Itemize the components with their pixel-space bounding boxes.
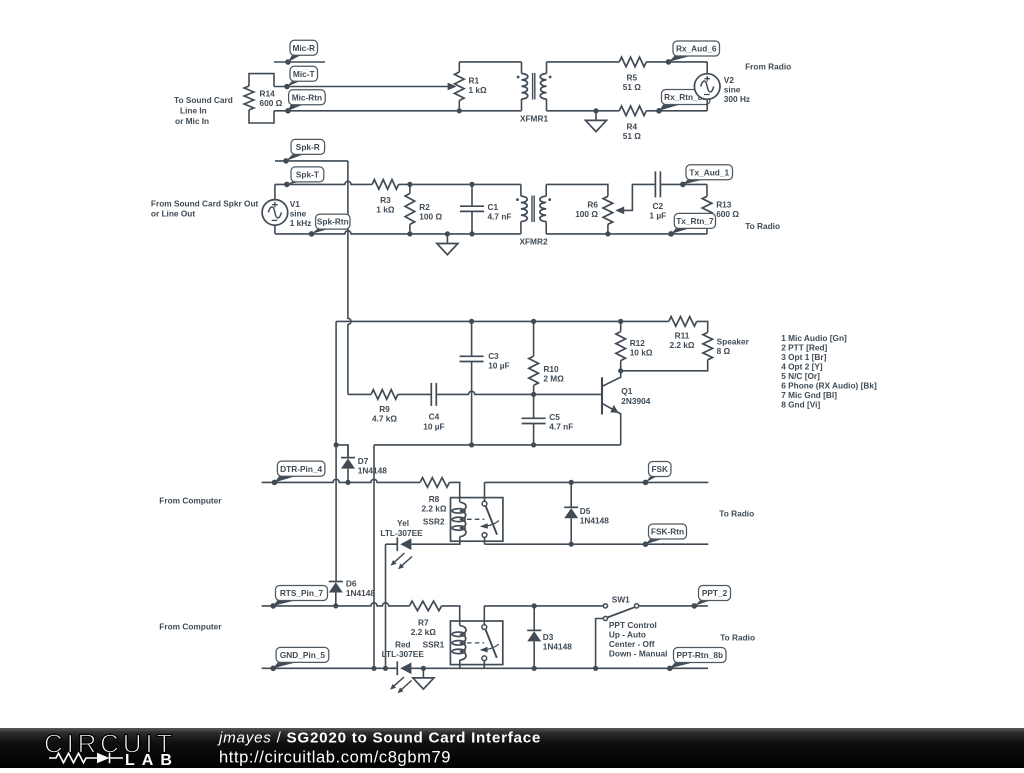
svg-text:From Radio: From Radio (745, 62, 791, 72)
wire FSK-Rtn row (485, 543, 709, 545)
svg-text:To Sound Card: To Sound Card (174, 95, 233, 105)
svg-text:Speaker: Speaker (717, 337, 750, 347)
flag Tx_Aud_1 (683, 179, 707, 185)
svg-text:1 kHz: 1 kHz (290, 218, 312, 228)
svg-text:FSK-Rtn: FSK-Rtn (651, 527, 684, 537)
wire Mic-R stub (274, 61, 325, 63)
flag Tx_Rtn_7 (671, 227, 693, 234)
LED yellow (SSR2) (411, 541, 459, 544)
resistor R5 (619, 57, 646, 67)
potentiometer R6 (603, 196, 613, 224)
svg-text:10 µF: 10 µF (423, 421, 444, 431)
flag GND_Pin_5 (273, 661, 300, 668)
potentiometer R1 (458, 62, 460, 72)
wire mid signal R9 row (348, 393, 371, 395)
svg-text:2.2 kΩ: 2.2 kΩ (421, 504, 446, 514)
flag DTR-Pin_4 (275, 475, 299, 482)
svg-text:Tx_Rtn_7: Tx_Rtn_7 (676, 216, 714, 226)
node R10 top (531, 319, 536, 324)
svg-text:7 Mic Gnd [Bl]: 7 Mic Gnd [Bl] (781, 390, 837, 400)
wire left vertical rail (335, 321, 337, 581)
svg-text:300 Hz: 300 Hz (724, 94, 750, 104)
capacitor C2 (654, 171, 656, 197)
transistor Q1 (601, 377, 603, 414)
svg-text:R9: R9 (379, 404, 390, 414)
wire rail drop to GND row (373, 445, 375, 668)
svg-text:Mic-R: Mic-R (292, 43, 315, 53)
svg-text:8 Gnd [Vi]: 8 Gnd [Vi] (781, 399, 820, 409)
node R12 top (618, 319, 623, 324)
svg-text:R4: R4 (626, 121, 637, 131)
svg-text:R1: R1 (469, 76, 480, 86)
svg-text:2 PTT [Red]: 2 PTT [Red] (781, 342, 827, 352)
node R2 bottom (407, 231, 412, 236)
svg-text:R3: R3 (380, 195, 391, 205)
svg-text:Spk-Rtn: Spk-Rtn (317, 217, 349, 227)
svg-text:jmayes / SG2020 to Sound Card: jmayes / SG2020 to Sound Card Interface (217, 730, 541, 747)
SSR1 switch (483, 606, 485, 625)
svg-text:2.2 kΩ: 2.2 kΩ (411, 627, 436, 637)
node D7 anode (345, 480, 350, 485)
svg-text:R2: R2 (419, 202, 430, 212)
svg-text:10 kΩ: 10 kΩ (630, 348, 653, 358)
node rail-left junction (334, 442, 339, 447)
svg-text:2N3904: 2N3904 (621, 396, 650, 406)
svg-text:or Mic In: or Mic In (175, 116, 209, 126)
svg-text:600 Ω: 600 Ω (716, 209, 739, 219)
switch SW1 (603, 604, 607, 608)
capacitor C5 (533, 394, 535, 418)
node Rx_Aud_6 (666, 59, 671, 64)
wire V2 bottom row (547, 110, 708, 112)
svg-text:From Computer: From Computer (159, 495, 222, 505)
wire Mic-T (274, 86, 449, 88)
svg-text:Rx_Aud_6: Rx_Aud_6 (676, 44, 717, 54)
node R10 mid (531, 392, 536, 397)
flag Mic-Rtn (288, 104, 305, 111)
flag Spk-Rtn (312, 228, 332, 234)
svg-text:R11: R11 (675, 331, 690, 341)
svg-text:From Computer: From Computer (159, 621, 222, 631)
flag Rx_Rtn_8b (659, 104, 683, 111)
svg-text:1 kΩ: 1 kΩ (376, 205, 395, 215)
svg-text:LTL-307EE: LTL-307EE (380, 528, 423, 538)
svg-text:Red: Red (395, 639, 411, 649)
flag FSK (646, 476, 659, 483)
svg-text:Spk-R: Spk-R (296, 142, 320, 152)
svg-text:Tx_Aud_1: Tx_Aud_1 (689, 167, 729, 177)
svg-text:8 Ω: 8 Ω (717, 346, 731, 356)
svg-text:C3: C3 (488, 351, 499, 361)
node SW1 return (593, 666, 598, 671)
svg-text:V1: V1 (290, 199, 301, 209)
svg-text:R8: R8 (429, 494, 440, 504)
resistor R4 (619, 105, 646, 117)
svg-text:XFMR2: XFMR2 (519, 236, 548, 246)
svg-text:Line In: Line In (180, 106, 207, 116)
svg-text:sine: sine (290, 209, 307, 219)
svg-text:R13: R13 (716, 200, 732, 210)
svg-text:Mic-Rtn: Mic-Rtn (292, 92, 322, 102)
svg-text:http://circuitlab.com/c8gbm79: http://circuitlab.com/c8gbm79 (219, 749, 451, 767)
svg-text:To Radio: To Radio (720, 633, 755, 643)
wire mid bottom rail (336, 445, 348, 459)
node rail-gnd (371, 666, 376, 671)
svg-text:D5: D5 (580, 506, 591, 516)
resistor R3 (372, 179, 398, 191)
diode D5 (570, 482, 572, 507)
svg-text:FSK: FSK (651, 464, 668, 474)
flag Spk-T (287, 181, 306, 185)
wire R1 top to XFMR1 (459, 61, 521, 63)
flag PPT-Rtn_8b (670, 662, 697, 669)
wire mid top rail (336, 320, 669, 322)
wire C2 to R13 (660, 183, 707, 185)
svg-text:1 kΩ: 1 kΩ (469, 85, 488, 95)
node D6 anode (333, 603, 338, 608)
wire Tx bottom (546, 233, 707, 235)
svg-text:GND_Pin_5: GND_Pin_5 (280, 650, 326, 660)
node R12 bottom (618, 368, 623, 373)
resistor R2 (405, 193, 415, 224)
svg-text:R7: R7 (418, 618, 429, 628)
svg-text:Down - Manual: Down - Manual (609, 649, 668, 659)
node D3 bottom (532, 666, 537, 671)
wire XFMR1 to R5 (547, 61, 620, 63)
svg-text:V2: V2 (724, 75, 735, 85)
svg-text:100 Ω: 100 Ω (419, 212, 442, 222)
svg-text:Mic-T: Mic-T (293, 69, 315, 79)
wire FSK row (485, 481, 709, 483)
relay SSR2 (451, 498, 503, 542)
svg-text:To Radio: To Radio (719, 508, 754, 518)
svg-text:D3: D3 (543, 632, 554, 642)
resistor R13 (702, 196, 712, 224)
node Tx_Aud (680, 182, 685, 187)
svg-text:SSR1: SSR1 (423, 639, 445, 649)
flag Mic-T (287, 80, 302, 86)
ground G1 (593, 108, 598, 113)
svg-text:C4: C4 (429, 412, 440, 422)
svg-text:LAB: LAB (125, 752, 179, 768)
svg-text:1 µF: 1 µF (649, 210, 666, 220)
svg-text:PPT Control: PPT Control (609, 620, 657, 630)
wire GND row (262, 667, 398, 669)
wire RTS row (262, 603, 410, 606)
diode D7 (347, 445, 349, 458)
flag Spk-R (286, 153, 306, 161)
resistor R7 (409, 601, 441, 611)
svg-text:DTR-Pin_4: DTR-Pin_4 (280, 464, 322, 474)
wiper arrow R1 (448, 83, 457, 91)
svg-text:1N4148: 1N4148 (358, 466, 387, 476)
speaker SPKR (703, 332, 713, 359)
svg-text:PPT-Rtn_8b: PPT-Rtn_8b (676, 650, 723, 660)
svg-text:4 Opt 2 [Y]: 4 Opt 2 [Y] (781, 361, 823, 371)
wire PPT_2 row (639, 605, 708, 607)
node C5 bottom (531, 442, 536, 447)
wire Spk-R stub and long vertical (275, 160, 348, 162)
svg-text:1N4148: 1N4148 (580, 515, 609, 525)
resistor R9 (371, 390, 398, 400)
flag Mic-R (288, 54, 302, 62)
svg-text:Center - Off: Center - Off (609, 639, 655, 649)
svg-text:C5: C5 (549, 412, 560, 422)
svg-text:RTS_Pin_7: RTS_Pin_7 (280, 588, 324, 598)
svg-text:D6: D6 (346, 578, 357, 588)
svg-text:R12: R12 (630, 338, 646, 348)
resistor R14 (249, 74, 274, 87)
svg-text:D7: D7 (358, 456, 369, 466)
wire Mic-Rtn (274, 110, 522, 112)
svg-text:or Line Out: or Line Out (151, 208, 195, 218)
svg-text:6 Phone (RX Audio) [Bk]: 6 Phone (RX Audio) [Bk] (781, 380, 877, 390)
LED yellow arrows (393, 553, 405, 564)
wire LED red to SSR1 (411, 667, 708, 669)
svg-text:1N4148: 1N4148 (346, 588, 375, 598)
wire RTS right segment (484, 605, 603, 607)
source V2 (706, 62, 708, 74)
svg-text:C1: C1 (488, 202, 499, 212)
node C3 top (469, 319, 474, 324)
source V1 (274, 184, 276, 199)
node C3 bottom (469, 442, 474, 447)
node Rx_Rtn (656, 108, 661, 113)
node R2 top (407, 182, 412, 187)
svg-text:3 Opt 1 [Br]: 3 Opt 1 [Br] (781, 352, 826, 362)
svg-text:SW1: SW1 (612, 595, 630, 605)
wire R5 to V2 top (646, 61, 707, 63)
svg-text:4.7 nF: 4.7 nF (549, 422, 573, 432)
diode D3 (533, 606, 535, 631)
resistor R11 (669, 317, 697, 327)
svg-text:2.2 kΩ: 2.2 kΩ (669, 340, 694, 350)
SSR2 switch (484, 482, 486, 501)
node Tx_Rtn (668, 231, 673, 236)
svg-text:R5: R5 (626, 72, 637, 82)
flag Rx_Aud_6 (669, 55, 694, 62)
transformer XFMR2 (520, 184, 522, 196)
relay SSR1 (450, 621, 502, 665)
flag RTS_Pin_7 (273, 600, 299, 606)
node D5 top (569, 480, 574, 485)
svg-text:R6: R6 (587, 200, 598, 210)
flag FSK-Rtn (646, 538, 666, 544)
svg-text:4.7 nF: 4.7 nF (488, 212, 512, 222)
wire Spk-T (275, 181, 521, 184)
svg-text:10 µF: 10 µF (488, 361, 509, 371)
node R6 bottom (605, 231, 610, 236)
ground G2 (445, 231, 450, 236)
resistor R8 (420, 478, 449, 488)
flag PPT_2 (694, 600, 713, 606)
capacitor C4 (398, 393, 431, 395)
svg-text:51 Ω: 51 Ω (623, 82, 642, 92)
resistor R12 (620, 321, 622, 331)
node C1 top (469, 182, 474, 187)
node D5 bottom (569, 542, 574, 547)
capacitor C3 (471, 321, 473, 356)
svg-text:1N4148: 1N4148 (543, 642, 572, 652)
svg-text:Yel: Yel (397, 518, 409, 528)
transformer XFMR1 (521, 62, 523, 74)
LED red arrows (392, 677, 404, 688)
node led-gnd (383, 666, 388, 671)
node D3 top (532, 603, 537, 608)
svg-text:4.7 kΩ: 4.7 kΩ (372, 414, 397, 424)
svg-text:LTL-307EE: LTL-307EE (382, 649, 425, 659)
resistor R10 (533, 321, 535, 356)
svg-text:From Sound Card Spkr Out: From Sound Card Spkr Out (151, 199, 259, 209)
wiper R6 to C2 (619, 184, 656, 210)
diode D6 (335, 581, 337, 583)
svg-text:To Radio: To Radio (745, 221, 780, 231)
svg-text:Spk-T: Spk-T (296, 170, 319, 180)
svg-text:1 Mic Audio [Gn]: 1 Mic Audio [Gn] (781, 333, 847, 343)
svg-text:sine: sine (724, 85, 741, 95)
ground G3 (421, 666, 426, 671)
wire DTR row (262, 479, 421, 482)
svg-text:XFMR1: XFMR1 (520, 114, 549, 124)
svg-text:C2: C2 (652, 201, 663, 211)
svg-text:R14: R14 (260, 89, 276, 99)
svg-text:PPT_2: PPT_2 (702, 588, 728, 598)
node R1 bottom (457, 108, 462, 113)
svg-text:100 Ω: 100 Ω (575, 209, 598, 219)
wire Spk bottom rail (275, 231, 521, 234)
svg-text:51 Ω: 51 Ω (623, 131, 642, 141)
svg-text:Q1: Q1 (621, 386, 632, 396)
wire XFMR2 to R6 (546, 184, 608, 196)
svg-text:2 MΩ: 2 MΩ (543, 374, 564, 384)
svg-text:SSR2: SSR2 (423, 517, 445, 527)
LED red (SSR1) (396, 661, 398, 675)
wire LED drop (385, 544, 387, 668)
capacitor C1 (471, 184, 473, 206)
svg-text:Up - Auto: Up - Auto (609, 630, 646, 640)
svg-text:R10: R10 (543, 364, 559, 374)
svg-text:5 N/C [Or]: 5 N/C [Or] (781, 371, 820, 381)
svg-text:600 Ω: 600 Ω (260, 98, 283, 108)
node C1 bottom (469, 231, 474, 236)
